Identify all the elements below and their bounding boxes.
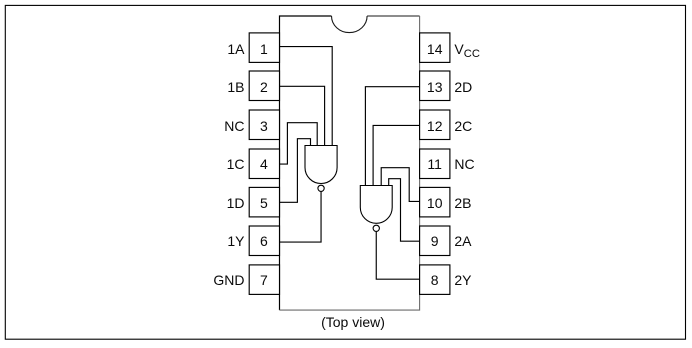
svg-text:6: 6 [260,233,268,249]
svg-text:2B: 2B [454,195,471,211]
wire pin 1 (1A) to gate U1a input A [280,47,333,146]
svg-text:2D: 2D [454,79,472,95]
pin 2 box [249,71,279,101]
svg-text:3: 3 [260,118,268,134]
svg-text:12: 12 [427,118,443,134]
svg-text:2Y: 2Y [454,272,472,288]
wire gate U2a output to pin 8 (2Y) [376,232,419,280]
svg-text:13: 13 [427,79,443,95]
pin 1 box [249,33,279,63]
svg-text:NC: NC [224,118,244,134]
IC package U1 outline (14-pin DIP body, top view) [280,16,420,310]
wire pin 9 (2A) to gate U2a input A [389,179,420,242]
svg-text:2A: 2A [454,233,472,249]
svg-text:2: 2 [260,79,268,95]
pin 3 box [249,110,279,140]
svg-text:(Top view): (Top view) [321,314,385,330]
NAND gate U2a body (4-input, pointing down) [360,186,392,224]
svg-text:11: 11 [427,156,442,172]
NAND gate U1a inverter bubble [318,185,324,191]
svg-text:10: 10 [427,195,443,211]
wire pin 12 (2C) to gate U2a input C [373,125,420,185]
svg-text:14: 14 [427,41,443,57]
svg-text:1Y: 1Y [227,233,245,249]
pin 5 box [249,187,279,217]
svg-text:1C: 1C [227,156,245,172]
svg-text:1B: 1B [227,79,244,95]
wire pin 2 (1B) to gate U1a input B [280,86,325,146]
pin 6 box [249,226,279,256]
svg-text:7: 7 [260,272,268,288]
svg-text:GND: GND [213,272,244,288]
wire pin 4 (1C) to gate U1a input C [280,123,318,164]
wire gate U1a output to pin 6 (1Y) [280,192,322,243]
pin 13 box [420,71,450,101]
svg-text:1D: 1D [227,195,245,211]
wire pin 10 (2B) to gate U2a input B [381,168,419,202]
wire pin 13 (2D) to gate U2a input D [365,87,419,186]
pin 4 box [249,149,279,179]
NAND gate U1a body (4-input, pointing down) [305,146,337,184]
svg-text:9: 9 [431,233,439,249]
svg-text:NC: NC [454,156,474,172]
pin 8 box [420,265,450,295]
pin-1 index notch (top center semicircle) [332,16,368,33]
svg-text:5: 5 [260,195,268,211]
pin 14 box [420,33,450,63]
pin 12 box [420,110,450,140]
svg-text:1: 1 [260,41,268,57]
svg-text:2C: 2C [454,118,472,134]
svg-text:8: 8 [431,272,439,288]
NAND gate U2a inverter bubble [373,225,379,231]
svg-text:1A: 1A [227,41,245,57]
wire pin 5 (1D) to gate U1a input D [280,139,311,203]
pin 11 box [420,149,450,179]
pin 7 box [249,265,279,295]
pin 9 box [420,226,450,256]
pin 10 box [420,187,450,217]
svg-text:4: 4 [260,156,268,172]
